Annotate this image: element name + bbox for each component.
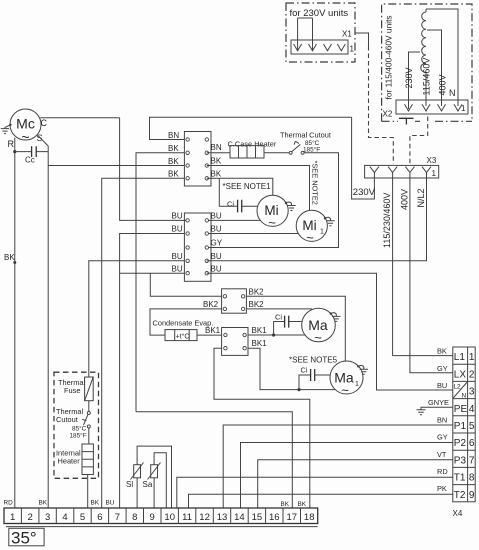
fan motor Mi1 bbox=[296, 210, 327, 245]
ground at Mc bbox=[1, 124, 12, 134]
connector block D (2-pole) bbox=[222, 328, 248, 356]
svg-text:BU: BU bbox=[211, 252, 222, 261]
svg-text:L2: L2 bbox=[454, 384, 462, 391]
svg-text:185°F: 185°F bbox=[70, 432, 87, 440]
wire stat to block4 row1 bbox=[197, 334, 222, 336]
svg-text:N/L2: N/L2 bbox=[416, 188, 426, 207]
ground at Ma1 bbox=[357, 365, 368, 374]
capacitor Ci (Ma) bbox=[285, 316, 289, 328]
wire heater to terminal 5 bbox=[87, 475, 89, 509]
svg-text:BK: BK bbox=[39, 500, 48, 507]
svg-text:BK1: BK1 bbox=[252, 339, 268, 348]
wire T2 to terminal 11 bbox=[189, 494, 453, 508]
svg-text:3: 3 bbox=[469, 387, 475, 398]
svg-text:230V: 230V bbox=[353, 187, 376, 198]
cell L2/N diagonal bbox=[453, 382, 467, 398]
svg-text:5: 5 bbox=[80, 512, 85, 523]
svg-text:~: ~ bbox=[341, 383, 349, 398]
svg-text:85°C: 85°C bbox=[72, 425, 87, 433]
dashed enclosure internal heater group bbox=[54, 372, 99, 478]
tap wire 230V bbox=[409, 52, 421, 100]
svg-text:PE: PE bbox=[454, 404, 468, 415]
svg-text:6: 6 bbox=[469, 438, 475, 449]
wire X3 pin2 down to L1 bbox=[393, 178, 453, 356]
svg-text:BK: BK bbox=[211, 169, 222, 178]
wire BN row1 to top bus bbox=[150, 117, 352, 139]
svg-text:BU: BU bbox=[172, 225, 183, 234]
wire switch to GY row bbox=[209, 153, 339, 248]
svg-text:Cc: Cc bbox=[25, 156, 35, 165]
svg-text:BK1: BK1 bbox=[205, 326, 221, 335]
svg-text:C: C bbox=[41, 118, 48, 128]
svg-text:P1: P1 bbox=[454, 421, 467, 432]
wire BK2 row2 left via condensate stat bbox=[150, 309, 222, 335]
terminal numbers 1-18 bbox=[10, 512, 314, 523]
svg-text:GY: GY bbox=[211, 239, 223, 248]
svg-text:N: N bbox=[449, 88, 456, 98]
T mark below X2 bbox=[399, 118, 414, 124]
fan motor Mi bbox=[257, 195, 288, 230]
svg-text:11: 11 bbox=[182, 512, 192, 523]
connector X2 bbox=[396, 100, 468, 114]
svg-text:17: 17 bbox=[287, 512, 298, 523]
svg-text:15: 15 bbox=[252, 512, 263, 523]
wire block1 row4 to BK bus bbox=[102, 178, 185, 508]
svg-text:6: 6 bbox=[97, 512, 102, 523]
svg-text:9: 9 bbox=[469, 490, 475, 501]
ground at Ma bbox=[330, 312, 341, 321]
wire P3 to terminal 15 bbox=[258, 460, 453, 508]
svg-text:Cutout: Cutout bbox=[56, 415, 78, 424]
svg-text:BU: BU bbox=[172, 212, 183, 221]
wire BU row4 to thermal fuse bbox=[89, 261, 185, 377]
terminal strip X4 (1-18) bbox=[4, 508, 318, 524]
fan motor Ma1 bbox=[330, 361, 363, 398]
svg-text:1: 1 bbox=[350, 45, 355, 54]
internal heater element bbox=[82, 444, 93, 475]
wire S diagonal bbox=[38, 136, 48, 146]
transformer winding bbox=[421, 9, 426, 100]
wire S-line down to terminal 3 bbox=[47, 146, 49, 508]
svg-text:X3: X3 bbox=[427, 156, 437, 165]
ground at Mi1 bbox=[324, 217, 335, 226]
svg-text:Thermal Cutout: Thermal Cutout bbox=[280, 131, 331, 140]
svg-text:18: 18 bbox=[304, 512, 315, 523]
wire PE to ground bbox=[421, 407, 453, 410]
svg-text:4: 4 bbox=[62, 512, 67, 523]
svg-text:BK: BK bbox=[298, 501, 307, 508]
svg-text:BK: BK bbox=[211, 156, 222, 165]
svg-text:RD: RD bbox=[437, 467, 448, 476]
wire BK1 row1 to Ma bbox=[248, 334, 305, 336]
wire Sl bottom to terminal 8 bbox=[136, 478, 138, 508]
svg-text:115/460V: 115/460V bbox=[422, 58, 432, 96]
wire P2 to terminal 14 bbox=[241, 443, 453, 509]
wire C-line down to BU row1 bbox=[120, 118, 185, 221]
junction dot BK label bbox=[13, 261, 16, 264]
svg-text:BU: BU bbox=[437, 381, 447, 390]
wire BK2 row1 to Ma1 top bbox=[246, 296, 345, 361]
wire BU bus tap to block3 row1 bbox=[150, 273, 221, 296]
ground at PE bbox=[417, 410, 426, 415]
svg-text:2: 2 bbox=[469, 370, 475, 381]
svg-text:BU: BU bbox=[211, 225, 222, 234]
svg-text:T2: T2 bbox=[454, 490, 466, 501]
wire Sl top to terminal 10 bbox=[137, 446, 171, 508]
sensor Sa bbox=[148, 463, 161, 480]
junction dot Ma1 cap bbox=[297, 388, 300, 391]
svg-text:RD: RD bbox=[4, 500, 14, 507]
svg-text:C.Case Heater: C.Case Heater bbox=[228, 139, 277, 148]
wire to Mi top bbox=[219, 178, 272, 195]
svg-text:BU: BU bbox=[172, 252, 183, 261]
svg-text:3: 3 bbox=[45, 512, 50, 523]
svg-text:X4: X4 bbox=[453, 509, 463, 518]
wire BU row2 down bbox=[120, 234, 185, 274]
wire Ci to Ma bbox=[289, 321, 302, 323]
svg-text:*SEE NOTE5: *SEE NOTE5 bbox=[289, 356, 338, 365]
wire X3 pin3 down to LX bbox=[410, 178, 453, 373]
svg-text:8: 8 bbox=[132, 512, 137, 523]
svg-text:BK1: BK1 bbox=[252, 326, 268, 335]
svg-text:~: ~ bbox=[268, 215, 276, 230]
wire heater to cutout contact bbox=[264, 152, 289, 154]
svg-text:10: 10 bbox=[164, 512, 175, 523]
svg-text:BK: BK bbox=[168, 170, 179, 179]
thermal cutout switch bbox=[289, 141, 304, 154]
svg-text:BN: BN bbox=[168, 131, 179, 140]
svg-text:BK: BK bbox=[4, 253, 15, 262]
wire BK row4 to note1 tee bbox=[207, 177, 220, 179]
wire fuse to cutout bbox=[88, 401, 90, 412]
svg-text:Sl: Sl bbox=[126, 480, 133, 489]
svg-text:7: 7 bbox=[469, 455, 475, 466]
connector X3 bbox=[365, 165, 439, 178]
svg-text:R: R bbox=[8, 139, 15, 149]
svg-text:35°: 35° bbox=[11, 529, 37, 548]
junction dot Ma cap bbox=[272, 333, 275, 336]
thermal cutout lower bbox=[82, 412, 90, 429]
svg-text:N: N bbox=[462, 393, 467, 400]
svg-text:T1: T1 bbox=[454, 473, 466, 484]
wire Sa bottom to terminal 9 bbox=[153, 478, 155, 508]
svg-text:1: 1 bbox=[320, 229, 324, 236]
svg-text:*SEE NOTE1: *SEE NOTE1 bbox=[223, 182, 272, 191]
svg-text:LX: LX bbox=[454, 370, 467, 381]
svg-text:14: 14 bbox=[234, 512, 245, 523]
svg-text:16: 16 bbox=[269, 512, 280, 523]
svg-text:1: 1 bbox=[432, 169, 437, 178]
svg-text:8: 8 bbox=[469, 473, 475, 484]
wire T1 to terminal 10 bbox=[177, 477, 453, 508]
svg-text:400V: 400V bbox=[400, 189, 410, 210]
wire tee up to capacitor Ci (Ma) bbox=[274, 322, 285, 336]
dash-dot enclosure for 230V units bbox=[286, 3, 355, 62]
dash-dot enclosure for 115/400-460V units bbox=[382, 4, 472, 121]
wire S-line to block1 row3 bbox=[48, 165, 184, 167]
svg-text:2: 2 bbox=[28, 512, 33, 523]
svg-text:230V: 230V bbox=[404, 67, 414, 88]
wire BU row2 to Mi1 bbox=[207, 233, 299, 235]
svg-text:L1: L1 bbox=[454, 352, 466, 363]
tap wire 400V bbox=[427, 30, 442, 100]
svg-text:BU: BU bbox=[106, 500, 115, 507]
svg-text:for 230V units: for 230V units bbox=[290, 8, 349, 19]
svg-text:1: 1 bbox=[10, 512, 15, 523]
svg-text:P2: P2 bbox=[454, 438, 467, 449]
svg-text:GNYE: GNYE bbox=[428, 398, 449, 407]
pin numbers 1-9 bbox=[469, 352, 475, 501]
svg-text:P3: P3 bbox=[454, 455, 467, 466]
svg-text:PK: PK bbox=[437, 484, 447, 493]
condensate thermostat +t°C bbox=[165, 330, 197, 341]
svg-text:BU: BU bbox=[211, 264, 222, 273]
wire R down bbox=[14, 138, 16, 508]
svg-text:GY: GY bbox=[437, 433, 448, 442]
svg-text:VT: VT bbox=[437, 450, 447, 459]
wire C to junction bbox=[41, 117, 120, 119]
connector X1 bbox=[291, 18, 348, 54]
wire N/L2 from X3 pin4 to BU row4 bbox=[207, 178, 427, 261]
svg-text:BK: BK bbox=[91, 500, 100, 507]
capacitor Cc bbox=[15, 146, 48, 157]
wire BK2 row2 to Ma upper bbox=[246, 308, 312, 310]
svg-text:*SEE NOTE2: *SEE NOTE2 bbox=[311, 161, 320, 205]
svg-text:for 115/400-460V units: for 115/400-460V units bbox=[384, 15, 394, 99]
wire BU row1 to Mi bbox=[184, 219, 260, 221]
svg-text:Ci: Ci bbox=[301, 366, 308, 375]
svg-text:115/230/460V: 115/230/460V bbox=[382, 193, 392, 248]
connector block A (4-pole) bbox=[184, 132, 211, 187]
wire cutout to internal heater bbox=[88, 428, 90, 444]
svg-text:BK: BK bbox=[168, 144, 179, 153]
svg-text:12: 12 bbox=[199, 512, 210, 523]
svg-text:7: 7 bbox=[115, 512, 120, 523]
wire P1 to terminal 13 bbox=[223, 425, 453, 508]
svg-text:9: 9 bbox=[150, 512, 155, 523]
tap wire N bbox=[426, 9, 458, 100]
svg-text:BN: BN bbox=[437, 415, 447, 424]
svg-text:Ci: Ci bbox=[227, 200, 234, 209]
junction dot R/Cc bbox=[13, 150, 16, 153]
35 degree box bbox=[9, 528, 44, 547]
svg-text:BK: BK bbox=[281, 501, 290, 508]
svg-text:BK: BK bbox=[437, 347, 447, 356]
svg-text:S: S bbox=[37, 133, 43, 143]
svg-text:4: 4 bbox=[469, 404, 475, 415]
svg-text:400V: 400V bbox=[438, 74, 448, 95]
capacitor Ci (Ma1) bbox=[311, 369, 315, 381]
wire Sa top to terminal 10 bbox=[154, 453, 166, 508]
connector block B (5-pole) bbox=[184, 213, 211, 281]
fan motor Ma bbox=[302, 308, 336, 345]
wire Ci to Mi bbox=[242, 205, 258, 207]
svg-text:~: ~ bbox=[314, 330, 322, 345]
wire top bus to X3 pin1 via 230V corner bbox=[352, 117, 375, 199]
ground at Mi bbox=[285, 202, 296, 211]
case heater element bbox=[230, 146, 264, 158]
connector block C (2-pole) bbox=[222, 289, 247, 313]
svg-text:BK2: BK2 bbox=[249, 300, 265, 309]
svg-text:GY: GY bbox=[437, 364, 448, 373]
wire block4 row2 left to terminal 18 bbox=[214, 348, 310, 508]
wire block1 row2 to BK bus x136 bbox=[136, 153, 184, 412]
terminal block X4 right bbox=[453, 347, 475, 502]
wire Ci to Ma1 bbox=[315, 374, 331, 376]
svg-text:BU: BU bbox=[172, 264, 183, 273]
strip base line bbox=[6, 526, 318, 528]
svg-text:X1: X1 bbox=[342, 30, 352, 39]
svg-text:13: 13 bbox=[217, 512, 228, 523]
svg-text:BK2: BK2 bbox=[249, 288, 265, 297]
svg-text:1: 1 bbox=[461, 104, 466, 113]
wire BU row5 to L2/N terminal bbox=[207, 273, 453, 390]
svg-text:BK: BK bbox=[168, 157, 179, 166]
svg-text:~: ~ bbox=[306, 230, 314, 245]
svg-text:+t°C: +t°C bbox=[176, 333, 190, 341]
svg-text:~: ~ bbox=[21, 129, 29, 145]
dashed wire X2 to X3 pin3 bbox=[410, 117, 428, 165]
wire BN row2 to case heater bbox=[207, 152, 230, 154]
svg-text:Ci: Ci bbox=[275, 313, 282, 322]
svg-text:X2: X2 bbox=[383, 110, 393, 119]
svg-text:BK2: BK2 bbox=[203, 300, 219, 309]
sensor Sl bbox=[131, 463, 144, 480]
dashed wire X1 to X3 pin2 bbox=[369, 46, 394, 164]
svg-text:Sa: Sa bbox=[143, 480, 153, 489]
wire block4 row2 right to Ma1 bottom bbox=[248, 348, 335, 389]
capacitor Ci bbox=[238, 200, 242, 213]
wire BK row3 to Mi1 top (see note2) bbox=[207, 166, 310, 211]
wire to capacitor Ci bbox=[219, 178, 237, 206]
svg-text:BN: BN bbox=[211, 143, 222, 152]
svg-text:5: 5 bbox=[469, 421, 475, 432]
svg-text:1: 1 bbox=[355, 381, 359, 388]
compressor motor Mc bbox=[10, 109, 41, 145]
wire BU row5 to terminal 7 bbox=[120, 273, 185, 508]
svg-text:BU: BU bbox=[211, 212, 222, 221]
wire tee up to capacitor Ci (Ma1) bbox=[299, 375, 311, 390]
svg-text:1: 1 bbox=[469, 352, 475, 363]
svg-text:Heater: Heater bbox=[58, 457, 81, 466]
wire BK bus to terminal 17 bbox=[136, 412, 292, 508]
thermal fuse bbox=[85, 377, 94, 401]
wire X1 tail bbox=[355, 33, 369, 46]
svg-text:Fuse: Fuse bbox=[64, 386, 80, 395]
